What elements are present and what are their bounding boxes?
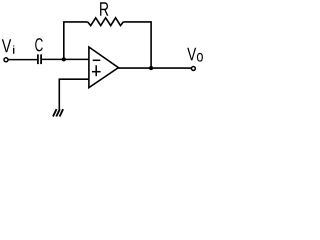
op-amp minus sign <box>93 59 101 61</box>
input terminal (Vi node) <box>4 58 8 62</box>
node B junction dot <box>149 66 153 70</box>
label C <box>35 38 43 51</box>
wire feedback top right and right vertical <box>123 22 151 68</box>
op-amp U1 <box>89 47 119 88</box>
resistor R <box>88 18 124 26</box>
wire non-inverting input to ground <box>59 79 89 109</box>
capacitor C <box>37 54 39 64</box>
ground <box>53 109 63 116</box>
op-amp plus sign <box>92 71 101 73</box>
node A junction dot <box>62 57 66 61</box>
output terminal (Vo node) <box>191 67 195 71</box>
label Vo <box>187 48 196 61</box>
wire capacitor to op-amp inverting input <box>42 58 90 60</box>
wire feedback left vertical and top <box>64 22 88 60</box>
label Vi <box>2 39 11 52</box>
label R <box>100 2 108 15</box>
wire op-amp output to output terminal <box>118 67 191 69</box>
wire input terminal to capacitor <box>8 59 37 61</box>
